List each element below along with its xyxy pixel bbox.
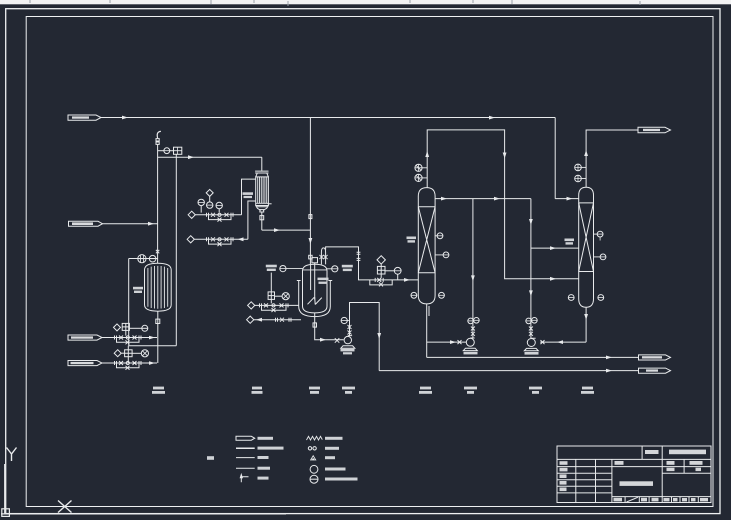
instrument circles on P3 discharge bbox=[526, 318, 532, 324]
arrow feed C into header bbox=[149, 361, 155, 365]
valve cluster on jacket outlet line bbox=[276, 318, 292, 322]
valve on P2 suction bbox=[458, 340, 462, 344]
control valve on vapor line bbox=[375, 278, 383, 282]
UCS icon Y label bbox=[7, 448, 17, 462]
wire: line to heat exchanger E2 top bbox=[158, 156, 262, 158]
wire: regulator drop line bbox=[175, 154, 177, 345]
legend: elbow arrow symbol bbox=[241, 477, 248, 482]
wire: evaporator bottom header bbox=[157, 311, 159, 363]
wire: feed A drop to column C2 bbox=[554, 118, 556, 199]
evaporator E1 tube internals bbox=[148, 266, 168, 309]
legend: pipe line symbol bbox=[236, 457, 255, 459]
title block bbox=[557, 446, 711, 503]
arrow on C1 overhead feed into C2 bbox=[550, 277, 556, 281]
stream flag: feed B (left) bbox=[68, 335, 102, 340]
wire: feed B line bbox=[102, 337, 157, 339]
instrument circle right of feed B control box bbox=[129, 327, 141, 329]
diamond flag: utility return D2 bbox=[187, 236, 194, 243]
diamond flag: jacket coolant inlet D3 bbox=[248, 302, 255, 309]
arrow on bottoms run bbox=[606, 356, 612, 360]
arrow down on C2 bottom outlet bbox=[584, 314, 588, 320]
arrow down on P1 discharge drop bbox=[377, 333, 381, 339]
heat exchanger E2 bottom head bbox=[256, 206, 269, 211]
heat exchanger E2 top nozzle bbox=[261, 157, 263, 171]
wire: evaporator top instrument header bbox=[129, 258, 158, 260]
valve on P3 suction bbox=[541, 340, 545, 344]
bypass loop under feed C valve cluster bbox=[117, 363, 140, 368]
wire: C1 side line to right bbox=[435, 198, 531, 200]
wire: cross link at y=345.7 bbox=[129, 345, 177, 347]
wire: feed A main line to right bbox=[101, 117, 555, 119]
arrow on E2 outlet run bbox=[274, 228, 280, 232]
heat exchanger E2 top flange bbox=[255, 171, 268, 177]
instrument circle right of jacket inlet box bbox=[275, 295, 283, 297]
arrow on jacket outlet line bbox=[256, 318, 262, 322]
instrument circles on C2 right side bbox=[594, 233, 598, 235]
flange pair on riser below gooseneck bbox=[156, 139, 159, 141]
wire: C1 bottoms branch to pump P2 bbox=[427, 341, 466, 343]
wire: jacket coolant inlet line bbox=[255, 304, 299, 306]
title block diagonal mark cell bbox=[627, 497, 639, 502]
instrument circles on C2 overhead riser bbox=[575, 164, 582, 171]
arrow on E2 feed line bbox=[188, 155, 194, 159]
valve cluster on feed C line bbox=[115, 361, 142, 365]
wire: feed C line bbox=[102, 362, 157, 364]
stream flag: feed C (left) bbox=[68, 361, 102, 366]
wire: C1 overhead loop bbox=[427, 130, 579, 279]
instrument circle on P1 discharge bbox=[341, 317, 347, 323]
arrow into reactor top bbox=[309, 238, 313, 244]
stream flag: feed A (top left) bbox=[68, 115, 101, 120]
legend: zigzag insulation symbol bbox=[307, 436, 323, 440]
column C1 shell bbox=[418, 188, 435, 304]
column C2 shell bbox=[579, 187, 594, 307]
UCS icon origin box bbox=[2, 509, 10, 517]
diamond flag: jacket coolant outlet D4 bbox=[247, 316, 254, 323]
reactor agitator impeller bbox=[308, 297, 322, 304]
instrument group above utility supply cluster bbox=[206, 189, 213, 196]
stream flag: product out (bottom right) bbox=[639, 368, 671, 373]
wire: P3 suction from C2 bottoms bbox=[540, 341, 586, 343]
arrow into C2 top feed bbox=[567, 197, 573, 201]
pressure regulator valve bbox=[170, 150, 174, 152]
instrument circle on regulator branch bbox=[164, 148, 170, 154]
instrument circles on C1 overhead riser bbox=[415, 164, 422, 171]
reactor inner tag label bbox=[318, 278, 329, 281]
arrow on C2 mid feed bbox=[550, 246, 556, 250]
diamond instrument left of feed B control box bbox=[114, 324, 121, 331]
control valve box above feed B cluster bbox=[122, 323, 129, 330]
wire: C2 bottom outlet to P3 bbox=[585, 307, 587, 342]
reactor dip tube bbox=[310, 266, 312, 291]
UCS icon X label bbox=[58, 501, 72, 513]
valve pair on P2 discharge bbox=[471, 327, 475, 336]
instrument circle right of control box bbox=[385, 270, 394, 272]
valve cluster on utility return line bbox=[207, 237, 234, 241]
wire: dropper from feed A header to reactor top bbox=[309, 118, 311, 266]
reactor temp instrument right stub bbox=[327, 268, 332, 270]
label C2 bbox=[565, 239, 575, 242]
wire: C2 overhead line bbox=[586, 130, 638, 187]
stream flag: feed D (left middle) bbox=[69, 221, 103, 226]
arrow down on P2 riser bbox=[471, 275, 475, 281]
UCS icon X axis line bbox=[1, 513, 286, 515]
instrument circle pair on evaporator top header bbox=[138, 255, 146, 263]
wire: C2 feed entry from flag A bbox=[555, 198, 579, 200]
wire: utility return line from E2 bbox=[194, 238, 248, 240]
wire: C1 bottom outlet bbox=[426, 304, 428, 358]
instrument circles on P2 discharge bbox=[468, 318, 474, 324]
heat exchanger E2 shell bbox=[256, 177, 269, 206]
bypass loop under utility supply cluster bbox=[209, 215, 232, 220]
column C2 packing section bbox=[579, 203, 594, 272]
arrow up on C1 overhead riser bbox=[425, 151, 429, 157]
arrow on reactor vapor line into C1 bbox=[404, 278, 410, 282]
valve cluster on feed B line bbox=[115, 336, 142, 340]
arrow on P3 suction bbox=[557, 340, 563, 344]
wire: C1 bottoms run to product flag bbox=[427, 356, 639, 358]
wire: E2 shell-side top connection bbox=[242, 179, 256, 215]
evaporator E1 shell bbox=[145, 263, 172, 311]
title block text blobs bbox=[560, 450, 709, 502]
arrow on feed A line bbox=[122, 116, 128, 120]
wire: pump P1 discharge bbox=[350, 303, 380, 371]
reactor R1 jacket bbox=[299, 281, 331, 317]
bypass loop under vapor line valve bbox=[370, 280, 392, 285]
arrow on reactor bottom outlet bbox=[320, 338, 326, 342]
wire: reactor bottom outlet bbox=[315, 313, 344, 340]
instrument circles on C1 right side bbox=[435, 235, 437, 237]
diamond instrument above control box bbox=[377, 256, 385, 264]
wire: E2 outlet to reactor top bbox=[262, 229, 311, 231]
E2 right drain stub bbox=[268, 203, 271, 205]
stream flag: overhead product out (top right) bbox=[638, 127, 671, 133]
legend: instrument circle symbol bbox=[310, 465, 318, 473]
legend: dcs instrument circle symbol bbox=[310, 475, 318, 483]
vent gooseneck at top of evaporator riser bbox=[157, 131, 161, 138]
instrument circle right of box bbox=[132, 352, 141, 354]
arrow feed B into header bbox=[149, 336, 155, 340]
pump P1 bbox=[344, 336, 351, 343]
reactor agitator motor bbox=[312, 258, 318, 263]
wire: reactor vapor line to column C1 bbox=[326, 247, 419, 280]
bypass loop under jacket inlet cluster bbox=[262, 305, 287, 310]
wire: E2 shell-side bottom connection bbox=[248, 201, 256, 239]
label E1 bbox=[133, 287, 143, 290]
legend: main pipe line symbol bbox=[236, 447, 255, 449]
reactor agitator shaft bbox=[314, 263, 316, 300]
arrow on utility return line bbox=[238, 237, 244, 241]
pump P3 bbox=[527, 339, 535, 347]
branch to pressure regulator bbox=[158, 150, 164, 152]
valve pair on P1 discharge riser bbox=[348, 325, 352, 335]
control valve box between feed headers bbox=[125, 350, 133, 357]
legend: utility line symbol bbox=[236, 467, 255, 469]
top strip tick marks bbox=[30, 0, 640, 6]
arrow on feed D line bbox=[148, 222, 154, 226]
arrows on C1 side line bbox=[441, 197, 447, 201]
valve on reactor top dropper bbox=[309, 255, 312, 259]
instrument circles at C1 bottom bbox=[411, 292, 417, 298]
column C1 packing section bbox=[418, 207, 435, 273]
bypass loop under feed B valve cluster bbox=[117, 338, 140, 343]
wire: P1 product run to flag (y=370.6) bbox=[379, 370, 638, 372]
wire: jacket coolant outlet line bbox=[254, 319, 301, 321]
inline trap on E2 outlet bbox=[260, 216, 264, 220]
reactor vent seal loop on dome bbox=[321, 248, 325, 265]
wire: E2 bottom outlet bbox=[261, 212, 263, 230]
label E2 bbox=[243, 192, 254, 195]
wire: utility supply line to E2 bbox=[195, 214, 241, 216]
arrow up on C2 overhead bbox=[584, 150, 588, 156]
instrument circles at C2 bottom bbox=[568, 295, 574, 301]
reactor dome weld line bbox=[303, 269, 328, 271]
valve on P1 suction bbox=[335, 338, 340, 343]
arrow down on P3 riser bbox=[529, 219, 533, 225]
diamond flag: utility supply D1 bbox=[188, 211, 195, 218]
diamond instrument left of box bbox=[114, 350, 121, 357]
pump P2 bbox=[466, 338, 474, 346]
wire: left instrument drop line bbox=[128, 259, 130, 346]
wire: pump P2 discharge riser bbox=[472, 199, 474, 338]
arrow on P2 suction bbox=[450, 340, 456, 344]
reactor R1 inner vessel bbox=[303, 264, 328, 313]
valve pair on P3 discharge bbox=[529, 327, 533, 336]
wire: pump P3 discharge riser and feed to C2 bbox=[530, 199, 532, 339]
legend text blobs bbox=[207, 437, 358, 481]
stream flag: bottoms product out bbox=[639, 355, 671, 360]
legend: stream flag symbol bbox=[236, 436, 255, 440]
wire: feed D line to evaporator riser bbox=[103, 223, 158, 225]
legend: small valve symbol bbox=[311, 456, 316, 460]
legend group bbox=[236, 436, 322, 483]
control valve box on jacket inlet bbox=[268, 292, 274, 300]
heat exchanger E2 tubes bbox=[258, 177, 267, 203]
reactor level instrument left stub bbox=[286, 268, 303, 270]
inline fitting on evaporator bottom line bbox=[156, 319, 160, 323]
legend: double circle symbol bbox=[308, 447, 311, 450]
wire: evaporator riser (vapor line) bbox=[157, 144, 159, 263]
bypass loop under utility return cluster bbox=[209, 239, 232, 244]
arrow on product run bbox=[606, 369, 612, 373]
X mark at evaporator top nozzle bbox=[156, 250, 159, 253]
equipment tag labels row bbox=[152, 387, 594, 394]
label C1 bbox=[407, 237, 417, 240]
UCS icon Y axis line bbox=[4, 464, 6, 514]
control valve box above vapor line bbox=[377, 266, 385, 274]
valve cluster on jacket inlet line bbox=[260, 303, 289, 307]
valve cluster on utility supply line bbox=[207, 213, 234, 217]
top white strip bbox=[0, 0, 731, 4]
